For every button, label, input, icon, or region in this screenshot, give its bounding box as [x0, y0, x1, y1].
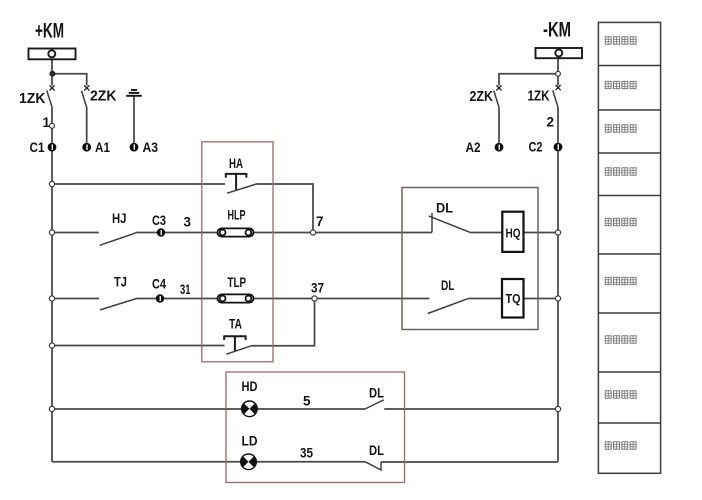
svg-text:HLP: HLP	[228, 207, 246, 223]
svg-text:LD: LD	[242, 433, 258, 449]
svg-text:1: 1	[43, 115, 51, 130]
svg-text:HJ: HJ	[112, 210, 127, 226]
svg-text:A3: A3	[143, 139, 159, 155]
svg-text:1ZK: 1ZK	[528, 89, 550, 105]
svg-text:2ZK: 2ZK	[470, 89, 494, 105]
svg-text:C4: C4	[152, 276, 166, 292]
svg-text:2ZK: 2ZK	[90, 89, 117, 105]
svg-text:DL: DL	[369, 442, 384, 458]
svg-text:+KM: +KM	[35, 20, 64, 43]
svg-text:C1: C1	[30, 139, 45, 155]
svg-text:5: 5	[303, 394, 311, 409]
svg-text:DL: DL	[436, 200, 453, 216]
svg-text:3: 3	[184, 215, 192, 230]
svg-text:HA: HA	[229, 155, 243, 171]
svg-text:35: 35	[300, 446, 313, 461]
svg-text:37: 37	[311, 281, 324, 296]
svg-text:A2: A2	[466, 139, 481, 155]
svg-text:31: 31	[180, 282, 191, 297]
svg-text:TJ: TJ	[114, 274, 127, 290]
svg-text:2: 2	[547, 115, 555, 130]
svg-text:TQ: TQ	[506, 292, 521, 306]
svg-text:HQ: HQ	[506, 227, 521, 241]
svg-text:DL: DL	[369, 385, 384, 401]
svg-text:C2: C2	[529, 139, 543, 155]
svg-text:HD: HD	[242, 378, 258, 394]
svg-text:TA: TA	[229, 316, 242, 332]
svg-text:-KM: -KM	[543, 19, 571, 42]
svg-text:DL: DL	[441, 277, 455, 293]
svg-text:TLP: TLP	[228, 274, 247, 290]
svg-text:1ZK: 1ZK	[19, 91, 46, 107]
svg-text:7: 7	[316, 214, 324, 229]
svg-text:C3: C3	[152, 212, 166, 228]
svg-text:A1: A1	[95, 139, 110, 155]
